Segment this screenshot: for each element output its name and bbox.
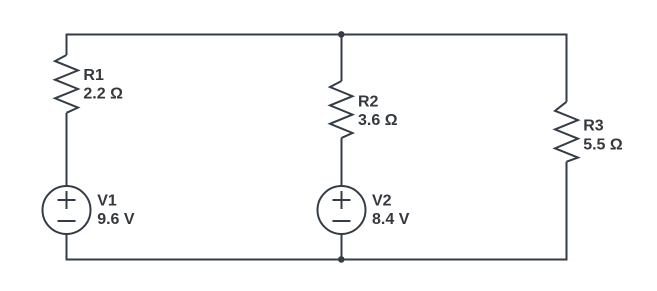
V2 plus sign — [333, 191, 351, 209]
wire V2 to bottom rail — [341, 234, 343, 260]
wire V1 to bottom rail — [66, 234, 68, 260]
voltage source V2 — [318, 186, 366, 234]
V1 plus sign — [58, 191, 76, 209]
svg-text:5.5 Ω: 5.5 Ω — [583, 137, 623, 154]
wire top rail — [66, 34, 568, 36]
resistor R2 — [330, 81, 353, 138]
svg-text:V1: V1 — [97, 192, 117, 209]
svg-text:3.6 Ω: 3.6 Ω — [358, 112, 398, 129]
voltage source V1 — [43, 186, 91, 234]
resistor R3 — [555, 102, 578, 162]
svg-text:V2: V2 — [372, 192, 392, 209]
wire R3 to bottom rail — [566, 162, 568, 260]
V2 minus sign — [333, 220, 351, 222]
wire middle branch top (top rail to R2) — [341, 35, 343, 82]
resistor R1 — [55, 55, 78, 113]
wire R2 to V2 — [341, 138, 343, 186]
node junction bottom (middle branch / bottom rail) — [338, 256, 345, 263]
wire left branch top (top rail to R1) — [66, 35, 68, 56]
svg-text:R3: R3 — [583, 118, 604, 135]
wire bottom rail — [66, 259, 568, 261]
svg-text:8.4 V: 8.4 V — [372, 211, 410, 228]
V1 minus sign — [58, 220, 76, 222]
wire R1 to V1 — [66, 113, 68, 186]
node junction top (middle branch / top rail) — [338, 31, 345, 38]
svg-text:2.2 Ω: 2.2 Ω — [83, 86, 123, 103]
svg-text:R2: R2 — [358, 94, 379, 111]
wire right branch top (top rail to R3) — [566, 35, 568, 102]
svg-text:R1: R1 — [83, 67, 104, 84]
svg-text:9.6 V: 9.6 V — [97, 211, 135, 228]
